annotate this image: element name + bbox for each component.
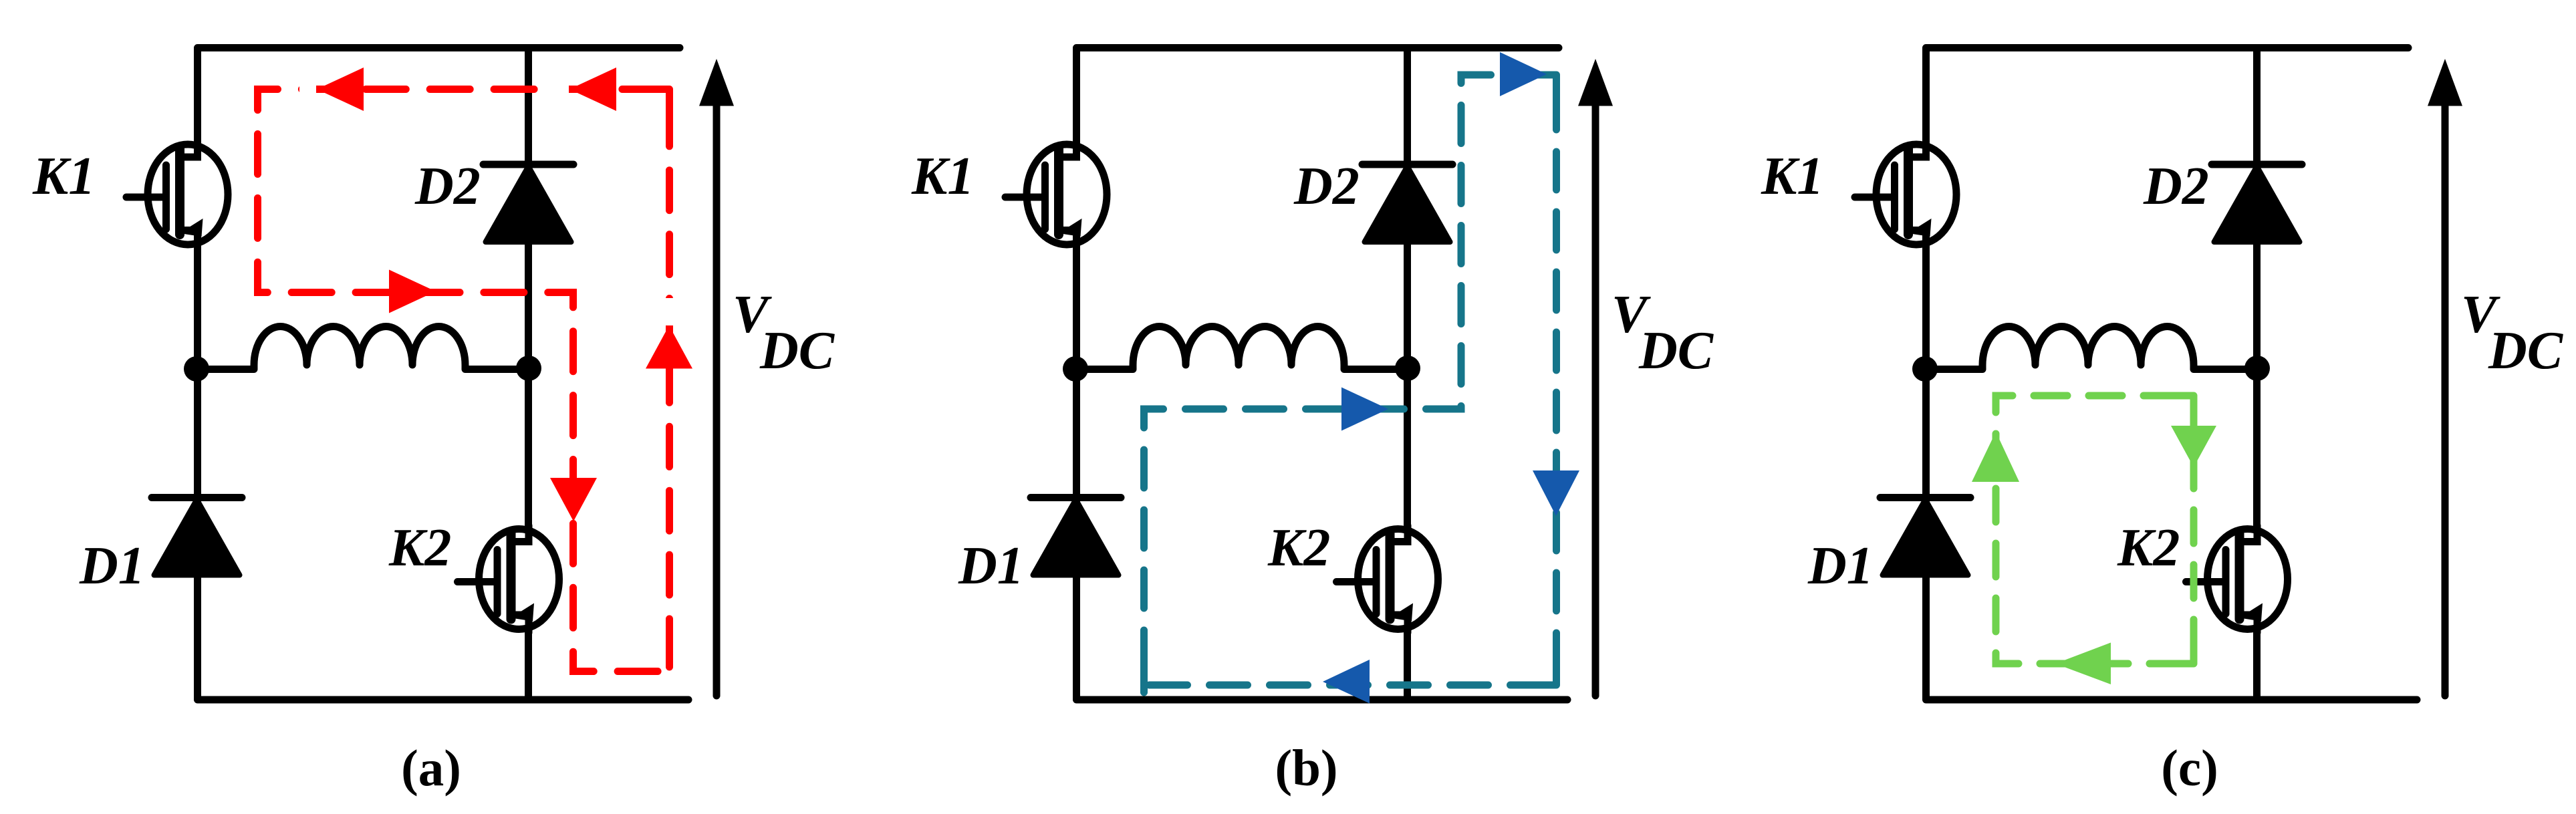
circuit panel b [911, 48, 1714, 700]
red arrow top 2 (left) [569, 67, 616, 111]
svg-text:(c): (c) [2161, 739, 2218, 797]
teal corner dash bottom-left (panel b) [1140, 663, 1148, 692]
green arrow down (right side) [2171, 426, 2216, 467]
red corner dash top-right (panel a) [646, 90, 670, 113]
teal corner dash bottom-right (panel b) [1529, 660, 1557, 685]
circuit panel a [32, 48, 835, 700]
green dashed current loop (panel c) [1996, 396, 2194, 664]
blue arrow middle (right) [1341, 388, 1388, 431]
red arrow middle (right) [389, 270, 436, 313]
svg-text:(a): (a) [401, 739, 461, 797]
blue arrow down (right leg) [1533, 470, 1579, 516]
red arrow top 1 (left) [317, 67, 364, 111]
red corner stub bottom-right (panel a) [666, 656, 673, 667]
blue arrow top (right) [1500, 52, 1547, 96]
teal corner dash top-right (panel b) [1535, 75, 1557, 99]
svg-text:(b): (b) [1275, 739, 1337, 797]
white gap before red arrowheads [299, 84, 316, 94]
circuit panel c [1761, 48, 2564, 700]
green corner dash bottom-right (panel c) [2172, 643, 2194, 664]
blue arrow bottom (left) [1323, 660, 1370, 704]
green corner dash top-right (panel c) [2175, 396, 2194, 416]
red arrow down (K2 leg) [550, 478, 597, 521]
teal dashed current loop (panel b) [1144, 75, 1557, 685]
red dashed current loop (panel a) [258, 90, 670, 672]
green arrow up (left side) [1972, 432, 2019, 482]
red arrow up (right leg) [646, 325, 692, 369]
green arrow bottom (left) [2055, 643, 2111, 685]
